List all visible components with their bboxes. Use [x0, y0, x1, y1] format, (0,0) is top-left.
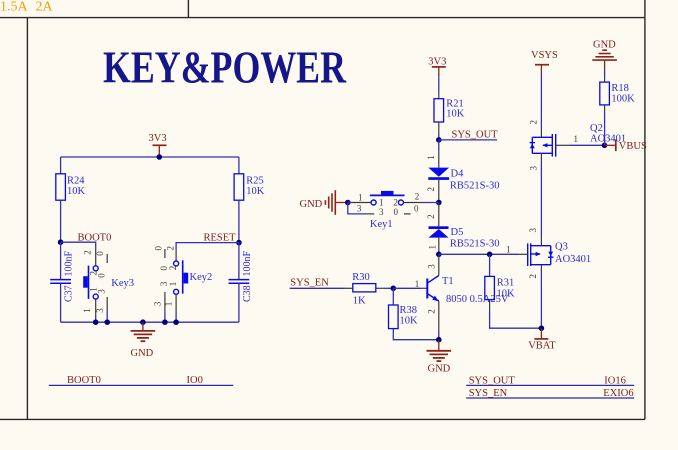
- power GND port (top right): [592, 39, 617, 69]
- svg-text:100K: 100K: [611, 93, 635, 104]
- svg-text:Key3: Key3: [111, 278, 134, 289]
- svg-text:2: 2: [168, 266, 178, 271]
- power GND port (Key1): [300, 190, 348, 215]
- svg-text:AO3401: AO3401: [555, 254, 591, 265]
- power VSYS: [531, 50, 558, 73]
- pin D4.1: [438, 140, 440, 152]
- svg-text:Q3: Q3: [555, 242, 568, 253]
- svg-text:Key1: Key1: [370, 219, 393, 230]
- node GND tap: [140, 319, 146, 325]
- svg-text:1: 1: [428, 245, 438, 250]
- svg-text:1: 1: [82, 308, 92, 313]
- pin T1.1: [421, 287, 427, 289]
- port line BOOT0/IO0: [49, 384, 234, 386]
- wire left column upper: [60, 157, 62, 174]
- svg-text:IO0: IO0: [187, 375, 203, 386]
- svg-text:C37: C37: [64, 285, 75, 302]
- node base: [391, 286, 397, 292]
- svg-text:2: 2: [415, 192, 420, 202]
- pin R21.1: [438, 91, 440, 99]
- pin D5.1: [438, 238, 440, 250]
- svg-text:R24: R24: [67, 176, 85, 187]
- svg-text:GND: GND: [131, 348, 154, 359]
- svg-text:3: 3: [357, 203, 362, 213]
- svg-text:KEY&POWER: KEY&POWER: [103, 43, 346, 93]
- node VBUS: [602, 143, 608, 149]
- svg-text:IO16: IO16: [604, 375, 626, 386]
- border top: [0, 17, 645, 19]
- resistor R24: [56, 174, 86, 200]
- wire R38 down: [392, 288, 394, 305]
- svg-text:3: 3: [96, 289, 106, 294]
- pin T1.2: [438, 301, 440, 330]
- svg-text:3V3: 3V3: [428, 57, 446, 68]
- diode D4: [428, 168, 499, 192]
- pin Q2.1 gate: [556, 144, 570, 146]
- svg-text:2: 2: [393, 198, 398, 208]
- svg-text:VBUS: VBUS: [619, 141, 647, 152]
- wire top rail: [61, 156, 239, 158]
- svg-text:100nF: 100nF: [242, 251, 253, 277]
- pin Q2.2: [540, 129, 542, 138]
- pushbutton Key1: [348, 191, 439, 230]
- svg-text:0: 0: [394, 207, 399, 217]
- resistor R30: [346, 272, 383, 306]
- svg-text:RB521S-30: RB521S-30: [450, 180, 500, 191]
- svg-text:1: 1: [574, 134, 579, 144]
- wire GND to R18: [604, 69, 606, 76]
- pin R18.1: [604, 76, 606, 82]
- svg-text:R18: R18: [611, 83, 629, 94]
- wire C37 to bottom rail: [60, 283, 62, 322]
- ground GND (left): [131, 322, 156, 341]
- svg-text:0: 0: [96, 273, 106, 278]
- port line SYS_OUT/IO16: [466, 384, 634, 386]
- wire R25 to RESET: [238, 200, 240, 242]
- svg-text:RB521S-30: RB521S-30: [450, 239, 500, 250]
- port line SYS_EN/EXIO6: [466, 397, 634, 399]
- svg-text:1: 1: [358, 192, 363, 202]
- pin Q2.3: [540, 153, 542, 161]
- node Key3 pin1: [93, 319, 99, 325]
- svg-text:0: 0: [154, 246, 164, 251]
- svg-text:R31: R31: [497, 278, 515, 289]
- power 3V3 (middle): [428, 57, 446, 78]
- svg-text:3: 3: [153, 301, 163, 306]
- svg-text:3: 3: [426, 264, 436, 269]
- wire R31 to VBAT node: [490, 310, 542, 328]
- svg-text:2: 2: [426, 187, 436, 192]
- wire emitter to gnd node: [438, 330, 440, 340]
- svg-text:10K: 10K: [446, 109, 465, 120]
- svg-text:C38: C38: [242, 285, 253, 302]
- svg-text:D5: D5: [451, 227, 464, 238]
- border right: [644, 0, 646, 419]
- resistor R31: [485, 276, 515, 299]
- svg-text:3: 3: [379, 207, 384, 217]
- svg-text:GND: GND: [593, 39, 616, 50]
- wire gate to VBUS node: [570, 144, 605, 146]
- node VBAT: [539, 325, 545, 331]
- border bottom: [0, 418, 645, 420]
- svg-text:2: 2: [165, 246, 175, 251]
- wire base: [393, 287, 421, 289]
- node Key3 pin3: [104, 319, 110, 325]
- node R31 top: [487, 252, 493, 258]
- wire Q3 to VBAT: [540, 273, 542, 329]
- power 3V3 (left): [149, 133, 167, 157]
- node Key1 GND: [345, 200, 351, 206]
- wire to SYS_OUT node: [438, 134, 440, 140]
- pin D5.2: [438, 203, 440, 227]
- node SYS_OUT: [436, 137, 442, 143]
- node emitter gnd: [436, 337, 442, 343]
- wire bottom rail: [61, 321, 239, 323]
- svg-text:GND: GND: [300, 199, 323, 210]
- wire BOOT0 to Key3: [61, 242, 96, 248]
- wire SYS_OUT stub: [439, 139, 497, 141]
- svg-text:10K: 10K: [246, 186, 264, 197]
- port VBUS: [605, 140, 647, 152]
- svg-text:0: 0: [414, 204, 419, 214]
- svg-text:1: 1: [168, 282, 178, 287]
- table divider: [187, 0, 189, 18]
- pin R31.2: [489, 300, 491, 311]
- wire collector rail: [439, 253, 519, 255]
- wire BOOT0 to C37: [60, 242, 62, 279]
- svg-text:Key2: Key2: [190, 272, 213, 283]
- border left: [26, 18, 28, 420]
- svg-text:2: 2: [529, 120, 539, 125]
- resistor R25: [234, 174, 265, 200]
- pin Q3.3: [540, 237, 542, 246]
- svg-text:VBAT: VBAT: [528, 340, 556, 351]
- wire 3V3 to R21: [438, 77, 440, 91]
- wire R31 down: [489, 254, 491, 276]
- svg-text:SYS_EN: SYS_EN: [290, 278, 329, 289]
- node RESET: [236, 240, 242, 246]
- wire to Key1 node: [438, 198, 440, 203]
- svg-text:3: 3: [95, 308, 105, 313]
- svg-text:SYS_OUT: SYS_OUT: [452, 129, 499, 140]
- wire SYS_EN: [290, 287, 346, 289]
- resistor R18: [600, 82, 635, 105]
- node 3V3 junction: [157, 154, 163, 160]
- svg-text:1.5A: 1.5A: [0, 0, 29, 15]
- svg-text:3: 3: [529, 166, 539, 171]
- svg-text:1: 1: [506, 244, 511, 254]
- wire C38 to bottom rail: [238, 283, 240, 322]
- node Key2 pin1: [173, 319, 179, 325]
- svg-text:1: 1: [426, 155, 436, 160]
- node Key2 pin3: [162, 319, 168, 325]
- pin R21.2: [438, 122, 440, 134]
- capacitor C38: [229, 251, 253, 303]
- svg-text:1: 1: [415, 279, 420, 289]
- svg-text:1: 1: [379, 198, 384, 208]
- wire R38 to gnd node: [393, 329, 439, 340]
- svg-text:R30: R30: [352, 272, 370, 283]
- svg-text:VSYS: VSYS: [531, 50, 558, 61]
- svg-text:T1: T1: [442, 276, 454, 287]
- svg-text:R38: R38: [400, 305, 418, 316]
- wire Q2 to Q3: [540, 162, 542, 238]
- wire VSYS to Q2: [540, 73, 542, 129]
- pin Q3.1 gate: [519, 253, 528, 255]
- node collector: [436, 252, 442, 258]
- svg-text:10K: 10K: [67, 186, 86, 197]
- power VBAT: [528, 328, 556, 351]
- svg-text:3: 3: [528, 228, 538, 233]
- resistor R21: [434, 99, 465, 123]
- mosfet Q2: [530, 123, 627, 157]
- wire R18 to VBUS node: [604, 112, 606, 145]
- svg-text:0: 0: [95, 251, 105, 256]
- wire R30 to base node: [383, 287, 394, 289]
- node BOOT0: [58, 239, 64, 245]
- svg-text:SYS_OUT: SYS_OUT: [469, 375, 516, 386]
- svg-text:100nF: 100nF: [64, 251, 75, 277]
- svg-text:3V3: 3V3: [149, 133, 167, 144]
- svg-text:BOOT0: BOOT0: [67, 375, 101, 386]
- svg-text:RESET: RESET: [204, 233, 237, 244]
- svg-text:1: 1: [164, 302, 174, 307]
- svg-text:2A: 2A: [36, 0, 54, 15]
- resistor R38: [389, 305, 419, 329]
- svg-text:R25: R25: [246, 176, 264, 187]
- transistor T1: [427, 276, 509, 306]
- pin R18.2: [604, 105, 606, 112]
- svg-text:2: 2: [426, 309, 436, 314]
- wire RESET to Key2: [176, 243, 239, 249]
- svg-text:D4: D4: [451, 168, 465, 179]
- svg-text:10K: 10K: [400, 316, 419, 327]
- wire right column upper: [238, 157, 240, 174]
- svg-text:10K: 10K: [497, 289, 516, 300]
- svg-text:1K: 1K: [353, 295, 366, 306]
- pin T1.3: [438, 254, 440, 275]
- node Key1: [436, 200, 442, 206]
- svg-text:SYS_EN: SYS_EN: [469, 388, 508, 399]
- wire RESET to C38: [238, 243, 240, 280]
- svg-text:GND: GND: [428, 363, 451, 374]
- svg-text:2: 2: [426, 214, 436, 219]
- mosfet Q3: [528, 242, 591, 267]
- pin D4.2: [438, 180, 440, 198]
- svg-text:2: 2: [82, 250, 92, 255]
- svg-text:2: 2: [528, 274, 538, 279]
- ground GND (middle): [427, 340, 452, 361]
- wire to collector node: [438, 250, 440, 255]
- svg-text:EXIO6: EXIO6: [603, 388, 633, 399]
- pin Q3.2: [540, 265, 542, 273]
- capacitor C37: [50, 251, 74, 303]
- wire R24 to BOOT0: [60, 200, 62, 242]
- pushbutton Key2: [153, 246, 213, 323]
- pushbutton Key3: [82, 249, 134, 323]
- diode D5: [429, 226, 500, 249]
